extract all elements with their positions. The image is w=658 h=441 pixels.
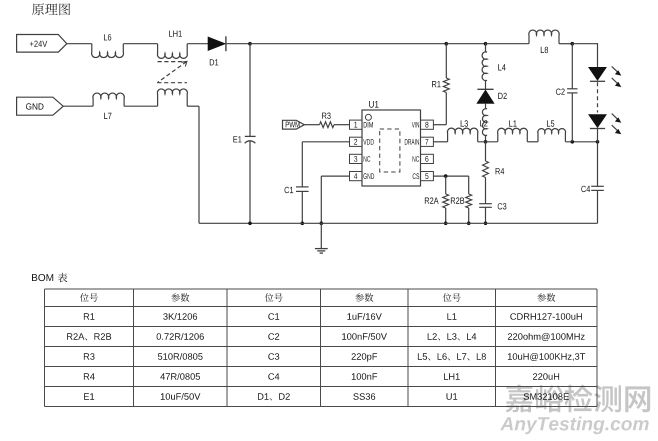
wire GND-pin [321,176,349,223]
inductor L8 [529,30,559,53]
inductor L4 [482,44,506,90]
LED D4 [589,114,622,135]
wire [559,43,572,45]
inductor L1 [498,120,528,141]
wire [334,124,350,126]
node C2-top [571,42,575,46]
node C3-gnd [484,222,488,226]
wire [124,105,158,107]
diode D2 [477,89,507,103]
inductor L5 [538,120,566,141]
wire [187,106,199,223]
ground [315,223,328,253]
node R2A-gnd [444,222,448,226]
label BOM [32,273,67,283]
resistor R3 [320,113,335,128]
wire [250,43,446,45]
node top-rail [248,42,252,46]
wire [67,43,92,45]
wire [565,141,597,143]
wire [123,43,157,45]
inductor L2 [480,103,487,141]
node R2B-gnd [467,222,471,226]
connector +24V [17,35,67,53]
node C2-bottom [571,140,575,144]
node CS [444,174,448,178]
watermark AnyTesting.com [500,417,649,435]
wire [63,105,93,107]
wire bottom-rail [199,222,598,224]
LED D3 [589,66,622,87]
wire [187,43,208,45]
capacitor C3 [479,203,506,223]
capacitor C4 [581,142,603,224]
node R1-top [445,42,449,46]
wire [597,129,599,142]
node C1-gnd [301,222,305,226]
node E1-gnd [248,222,252,226]
core dashes LH1 [157,61,187,82]
wire [304,124,319,126]
wire [572,43,597,67]
inductor L7 [93,93,124,119]
BOM header [80,293,555,302]
wire VDD [302,142,349,187]
transformer LH1 [157,31,187,107]
node led-bottom [596,140,600,144]
capacitor C2 [556,44,577,142]
IC U1 [350,101,434,186]
node L4-top [484,42,488,46]
wire drain [433,141,447,143]
connector PWM [283,120,305,129]
connector GND [17,97,64,115]
BOM rows [67,313,585,400]
wire [446,43,485,45]
watermark 嘉峪检测网 [506,385,651,413]
diode D1 [208,36,226,65]
BOM table grid [45,289,598,407]
title 原理图 [32,3,70,15]
inductor L3 [447,120,477,142]
resistor R1 [432,44,449,125]
resistor R2A [425,176,449,223]
resistor R4 [483,142,505,204]
wire dashed-led [597,82,599,112]
node drain-junction [484,140,488,144]
capacitor E1 [233,44,255,224]
wire [478,141,498,143]
wire [527,141,538,143]
node gnd-rail [320,222,324,226]
wire CS [433,175,468,177]
wire [226,43,250,45]
resistor R2B [451,176,472,223]
inductor L6 [92,34,124,57]
wire [486,43,530,45]
capacitor C1 [285,187,309,224]
